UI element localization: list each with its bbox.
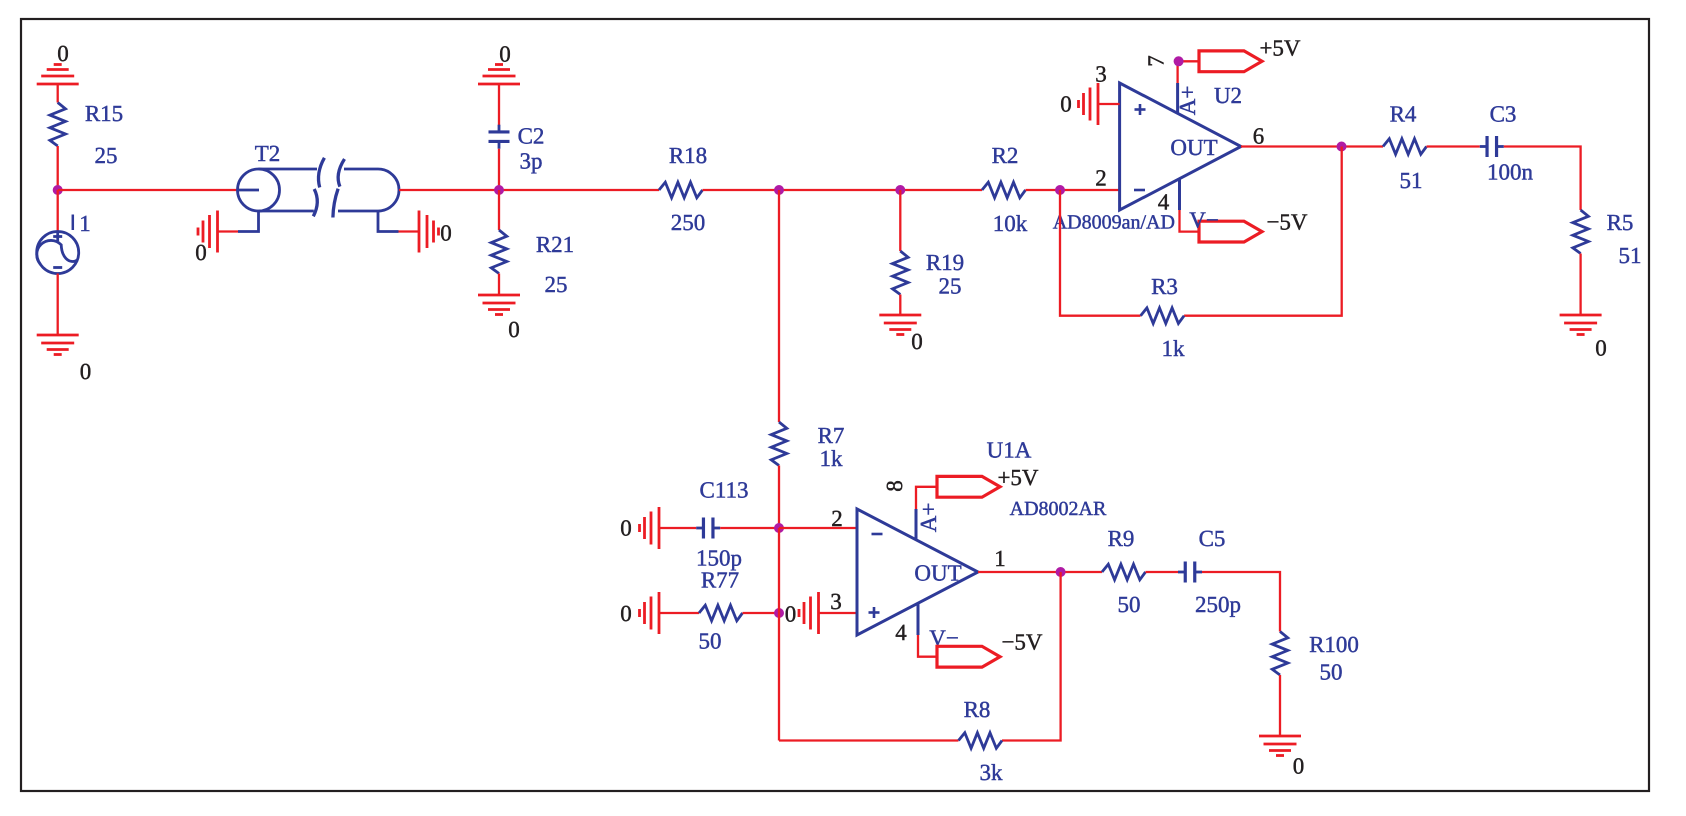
node H junction	[774, 608, 784, 618]
svg-text:U2: U2	[1214, 83, 1242, 108]
wire R19 to ground	[899, 295, 901, 316]
wire T2 left pin to ground	[218, 230, 238, 232]
wire R77 to node H	[743, 612, 780, 614]
svg-text:R5: R5	[1607, 210, 1634, 235]
wire T2 right pin to ground	[399, 230, 420, 232]
svg-text:0: 0	[195, 240, 207, 265]
svg-text:51: 51	[1619, 243, 1642, 268]
wire R15 to node	[57, 146, 59, 190]
wire C3 to R5	[1504, 147, 1581, 211]
resistor R9	[1102, 526, 1146, 617]
svg-text:7: 7	[1144, 55, 1169, 67]
svg-text:OUT: OUT	[914, 561, 961, 586]
capacitor C5	[1178, 526, 1241, 617]
wire node G to node H to feedback	[778, 528, 780, 741]
svg-text:R7: R7	[818, 423, 845, 448]
svg-text:100n: 100n	[1487, 160, 1534, 185]
ground (C113 input, net 0, points left)	[620, 507, 659, 549]
svg-text:6: 6	[1253, 124, 1265, 149]
svg-text:R9: R9	[1108, 526, 1135, 551]
svg-text:0: 0	[620, 516, 632, 541]
wire U2 output pin 6	[1241, 145, 1383, 147]
wire node D to R19	[899, 190, 901, 251]
node C junction	[774, 185, 784, 195]
svg-text:+5V: +5V	[1259, 36, 1300, 61]
wire U1A pin 4	[918, 635, 937, 657]
svg-text:R77: R77	[701, 568, 739, 593]
svg-text:51: 51	[1400, 168, 1423, 193]
wire node C to R7	[778, 190, 780, 422]
ground (below I1, net 0)	[37, 335, 92, 384]
node A junction	[53, 185, 63, 195]
wire R7 to node G	[778, 466, 780, 529]
wire ground to R77	[659, 612, 699, 614]
capacitor C113	[696, 478, 749, 571]
svg-text:3: 3	[1095, 62, 1107, 87]
svg-text:0: 0	[1293, 754, 1305, 779]
svg-text:25: 25	[95, 143, 118, 168]
resistor R2	[982, 143, 1028, 236]
svg-text:C113: C113	[700, 478, 749, 503]
svg-text:T2: T2	[255, 141, 281, 166]
wire T2 to R18	[399, 189, 659, 191]
svg-text:R15: R15	[85, 101, 123, 126]
wire U1A output pin 1	[978, 571, 1102, 573]
svg-text:2: 2	[1095, 166, 1107, 191]
ground (top-left, net 0, points up)	[37, 41, 79, 84]
ground (above C2, net 0, points up)	[478, 42, 520, 85]
op-amp U1A	[857, 509, 978, 635]
ground (U1A pin 3, net 0, points left)	[799, 592, 819, 634]
node B junction	[494, 185, 504, 195]
wire U2 pin 4	[1180, 210, 1200, 232]
svg-text:R8: R8	[964, 697, 991, 722]
svg-text:0: 0	[620, 601, 632, 626]
svg-text:250p: 250p	[1195, 592, 1241, 617]
transformer T2	[238, 158, 400, 232]
current source I1	[37, 215, 79, 274]
wire C2 to node B	[498, 149, 500, 190]
svg-text:R18: R18	[669, 143, 707, 168]
wire R21 to ground	[498, 274, 500, 296]
svg-text:4: 4	[895, 620, 907, 645]
svg-text:25: 25	[939, 274, 962, 299]
svg-text:4: 4	[1158, 190, 1170, 215]
svg-text:0: 0	[1595, 336, 1607, 361]
svg-text:2: 2	[831, 506, 843, 531]
svg-text:R19: R19	[926, 250, 964, 275]
svg-text:0: 0	[499, 42, 511, 67]
wire node A to T2	[58, 189, 238, 191]
op-amp U2	[1120, 83, 1241, 210]
capacitor C3	[1480, 102, 1534, 185]
wire ground to U2 pin 3	[1098, 103, 1120, 105]
wire C113 to node G	[720, 527, 779, 529]
svg-text:A+: A+	[1175, 86, 1200, 116]
resistor R18	[659, 143, 707, 235]
ground (R77 input, net 0, points left)	[620, 592, 659, 634]
power flag +5V (U1A)	[937, 465, 1039, 497]
node F junction	[1337, 142, 1347, 152]
wire R8 feedback loop	[779, 572, 1061, 741]
svg-text:+5V: +5V	[997, 465, 1038, 490]
ground (T2 primary, points left)	[195, 211, 217, 266]
wire R18 to R2	[703, 189, 983, 191]
svg-text:R100: R100	[1309, 632, 1359, 657]
resistor R77	[699, 568, 743, 654]
svg-text:R21: R21	[536, 232, 574, 257]
resistor R21	[491, 230, 574, 297]
svg-text:AD8002AR: AD8002AR	[1010, 498, 1107, 520]
wire node A to I1	[57, 190, 59, 232]
svg-text:C5: C5	[1199, 526, 1226, 551]
node G junction	[774, 523, 784, 533]
svg-text:3k: 3k	[980, 760, 1004, 785]
svg-text:R3: R3	[1151, 274, 1178, 299]
ground (below R100, net 0)	[1259, 736, 1304, 779]
ground (below R21, net 0)	[478, 295, 520, 342]
svg-text:AD8009an/AD: AD8009an/AD	[1053, 212, 1175, 234]
svg-text:0: 0	[911, 329, 923, 354]
resistor R5	[1573, 210, 1642, 268]
svg-text:25: 25	[545, 272, 568, 297]
wire ground to C2	[498, 84, 500, 126]
wire R100 to ground	[1279, 675, 1281, 736]
svg-text:0: 0	[508, 317, 520, 342]
svg-text:C2: C2	[518, 124, 545, 149]
svg-text:1k: 1k	[1162, 336, 1186, 361]
svg-text:50: 50	[1118, 592, 1141, 617]
ground (below R5, net 0)	[1560, 315, 1607, 361]
capacitor C2	[489, 124, 545, 174]
power flag +5V (U2)	[1199, 36, 1301, 72]
svg-text:3: 3	[830, 589, 842, 614]
svg-text:OUT: OUT	[1170, 135, 1217, 160]
svg-text:−5V: −5V	[1001, 630, 1042, 655]
power flag -5V (U2)	[1199, 210, 1308, 243]
ground (below R19, net 0)	[879, 315, 922, 354]
svg-text:10k: 10k	[993, 211, 1028, 236]
resistor R7	[771, 422, 844, 471]
wire U1A pin 8	[916, 487, 937, 509]
svg-text:0: 0	[80, 359, 92, 384]
svg-text:0: 0	[1060, 92, 1072, 117]
wire R2 to U2 pin 2	[1026, 189, 1120, 191]
wire ground to C113	[659, 527, 696, 529]
svg-text:0: 0	[440, 221, 452, 246]
resistor R4	[1383, 102, 1427, 194]
svg-text:1: 1	[79, 211, 91, 236]
resistor R100	[1272, 632, 1359, 685]
wire R5 to ground	[1579, 254, 1581, 316]
svg-text:C3: C3	[1490, 102, 1517, 127]
wire R9 to C5	[1146, 571, 1179, 573]
wire ground to R15	[57, 84, 59, 103]
node J junction	[1056, 567, 1066, 577]
wire ground to U1A pin 3	[819, 612, 858, 614]
wire R3 feedback loop	[1060, 147, 1342, 316]
resistor R8	[959, 697, 1004, 785]
wire U2 pin 7	[1178, 61, 1199, 83]
wire R4 to C3	[1427, 145, 1480, 147]
ground (T2 secondary, points right)	[419, 211, 452, 253]
svg-text:R4: R4	[1390, 102, 1417, 127]
power flag -5V (U1A)	[937, 630, 1043, 668]
svg-text:A+: A+	[916, 503, 941, 533]
svg-text:U1A: U1A	[987, 438, 1032, 463]
svg-text:R2: R2	[992, 143, 1019, 168]
wire I1 to ground	[57, 274, 59, 336]
wire C5 to R100	[1202, 572, 1280, 632]
wire node B to R21	[498, 190, 500, 230]
svg-text:250: 250	[671, 210, 706, 235]
svg-text:0: 0	[785, 602, 797, 627]
svg-text:8: 8	[882, 480, 907, 492]
ground (U2 pin 3, net 0, points left)	[1060, 83, 1098, 125]
resistor R15	[50, 101, 123, 168]
node E junction	[1055, 185, 1065, 195]
resistor R19	[893, 250, 965, 299]
svg-text:1: 1	[994, 546, 1006, 571]
svg-text:50: 50	[699, 629, 722, 654]
svg-text:3p: 3p	[520, 149, 543, 174]
svg-text:50: 50	[1320, 660, 1343, 685]
node D junction	[895, 185, 905, 195]
svg-text:−5V: −5V	[1266, 210, 1307, 235]
wire node G to U1A pin 2	[779, 527, 857, 529]
resistor R3	[1141, 274, 1185, 361]
svg-text:V−: V−	[1189, 208, 1219, 233]
svg-text:1k: 1k	[820, 446, 844, 471]
node pin7 junction	[1174, 56, 1184, 66]
svg-text:0: 0	[57, 41, 69, 66]
